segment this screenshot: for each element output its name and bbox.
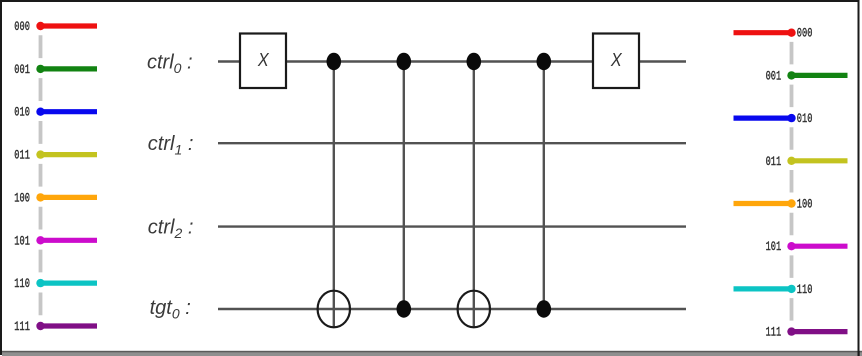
svg-text:010: 010 — [797, 111, 813, 126]
svg-text:111: 111 — [766, 325, 782, 340]
svg-text:100: 100 — [797, 197, 813, 212]
svg-text:101: 101 — [14, 233, 30, 248]
svg-text:110: 110 — [14, 276, 30, 291]
svg-text:000: 000 — [797, 26, 813, 41]
svg-text:tgt0 :: tgt0 : — [150, 297, 191, 322]
svg-text:011: 011 — [766, 154, 782, 169]
svg-text:ctrl0 :: ctrl0 : — [147, 52, 193, 77]
svg-text:X: X — [610, 49, 623, 70]
svg-text:ctrl1 :: ctrl1 : — [148, 133, 194, 158]
svg-text:010: 010 — [14, 105, 30, 120]
svg-text:000: 000 — [14, 19, 30, 34]
svg-text:100: 100 — [14, 190, 30, 205]
svg-text:111: 111 — [14, 319, 30, 334]
svg-text:110: 110 — [797, 282, 813, 297]
svg-text:ctrl2 :: ctrl2 : — [148, 217, 194, 242]
svg-text:001: 001 — [14, 62, 30, 77]
svg-text:101: 101 — [766, 239, 782, 254]
svg-text:X: X — [257, 49, 270, 70]
svg-text:011: 011 — [14, 148, 30, 163]
svg-text:001: 001 — [766, 68, 782, 83]
